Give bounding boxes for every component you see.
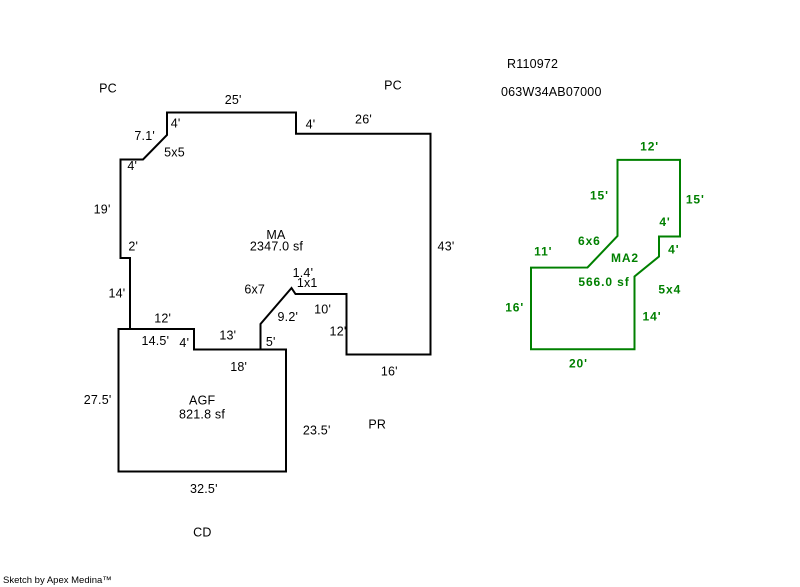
- svg-text:CD: CD: [193, 526, 211, 540]
- svg-text:AGF: AGF: [189, 394, 215, 408]
- svg-text:4': 4': [659, 215, 670, 229]
- svg-text:PC: PC: [384, 79, 402, 93]
- svg-text:14': 14': [643, 310, 662, 324]
- svg-text:20': 20': [569, 357, 588, 371]
- svg-text:4': 4': [171, 117, 181, 131]
- svg-text:18': 18': [230, 360, 247, 374]
- svg-text:12': 12': [640, 140, 659, 154]
- svg-text:5x5: 5x5: [164, 146, 185, 160]
- svg-text:2347.0 sf: 2347.0 sf: [250, 240, 304, 254]
- svg-text:5x4: 5x4: [658, 283, 681, 297]
- svg-text:14': 14': [108, 287, 125, 301]
- svg-text:063W34AB07000: 063W34AB07000: [501, 85, 602, 99]
- svg-text:6x6: 6x6: [578, 234, 601, 248]
- svg-text:16': 16': [505, 301, 524, 315]
- svg-text:15': 15': [590, 189, 609, 203]
- svg-text:26': 26': [355, 113, 372, 127]
- svg-text:PC: PC: [99, 82, 117, 96]
- svg-text:PR: PR: [368, 418, 386, 432]
- svg-text:12': 12': [154, 312, 171, 326]
- svg-text:32.5': 32.5': [190, 482, 218, 496]
- svg-text:821.8 sf: 821.8 sf: [179, 408, 225, 422]
- svg-text:14.5': 14.5': [141, 334, 169, 348]
- svg-text:R110972: R110972: [507, 57, 558, 71]
- svg-text:9.2': 9.2': [278, 310, 299, 324]
- svg-text:Sketch by Apex Medina™: Sketch by Apex Medina™: [3, 575, 112, 586]
- svg-text:15': 15': [686, 193, 705, 207]
- svg-text:12': 12': [330, 325, 347, 339]
- svg-text:4': 4': [668, 243, 679, 257]
- svg-text:10': 10': [314, 303, 331, 317]
- svg-text:566.0 sf: 566.0 sf: [578, 275, 629, 289]
- svg-text:5': 5': [266, 335, 276, 349]
- svg-text:23.5': 23.5': [303, 424, 331, 438]
- svg-text:1x1: 1x1: [297, 276, 318, 290]
- svg-text:11': 11': [534, 245, 552, 259]
- svg-text:MA2: MA2: [611, 251, 639, 265]
- svg-text:16': 16': [381, 365, 398, 379]
- svg-text:4': 4': [127, 159, 137, 173]
- svg-text:25': 25': [225, 93, 242, 107]
- svg-text:7.1': 7.1': [134, 129, 155, 143]
- svg-text:27.5': 27.5': [84, 393, 112, 407]
- svg-text:19': 19': [94, 203, 111, 217]
- MA outline (main area polygon): [121, 113, 431, 355]
- svg-text:2': 2': [128, 240, 138, 254]
- svg-text:13': 13': [219, 329, 236, 343]
- svg-text:4': 4': [306, 118, 316, 132]
- AGF outline (garage polygon): [119, 329, 287, 472]
- svg-text:6x7: 6x7: [244, 283, 265, 297]
- MA2 outline (green second-floor polygon): [531, 160, 680, 349]
- svg-text:4': 4': [179, 336, 189, 350]
- svg-text:43': 43': [438, 240, 455, 254]
